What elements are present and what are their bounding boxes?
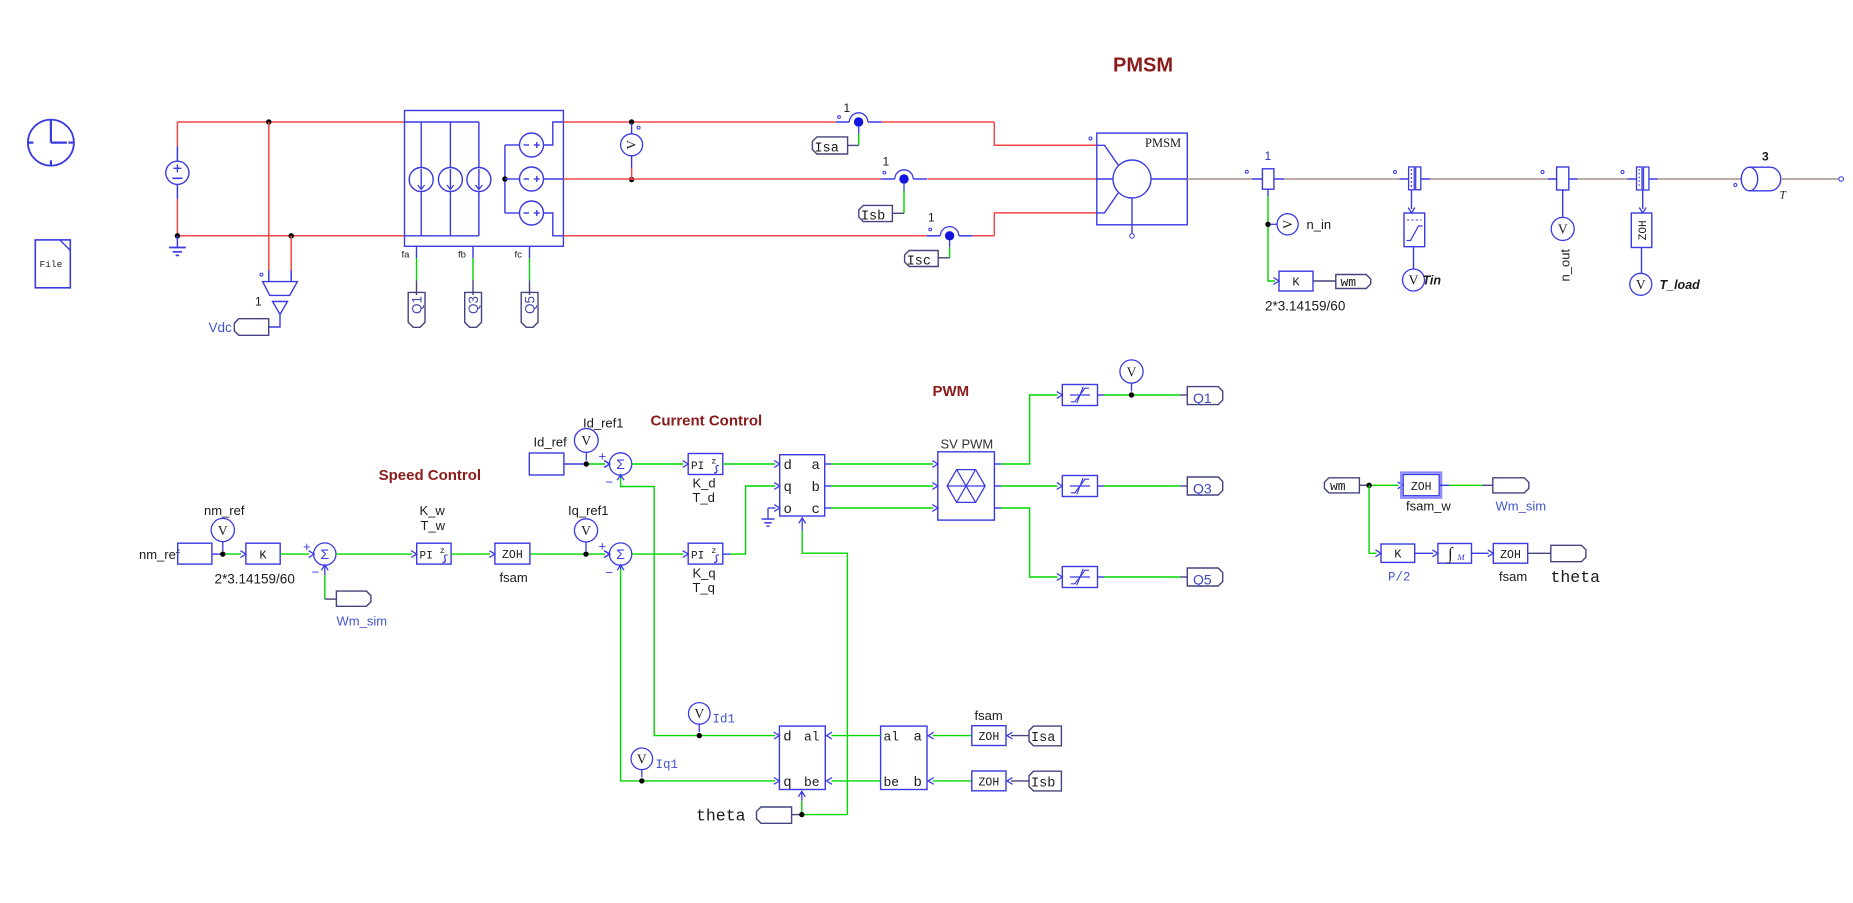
wire red phase c — [563, 235, 926, 237]
speed sensor W2 — [1541, 171, 1544, 174]
svg-text:Isb: Isb — [1031, 776, 1055, 791]
label tag Isb fb — [1029, 771, 1061, 791]
svg-text:Σ: Σ — [616, 456, 625, 472]
wire red phase c to motor — [973, 235, 995, 237]
probe Tin — [1403, 269, 1425, 291]
label tag wm out — [1336, 275, 1371, 289]
wire PI q to block dq-abc q input — [723, 553, 730, 555]
svg-text:n_out: n_out — [1558, 249, 1573, 282]
svg-text:V: V — [581, 523, 591, 538]
wire W2 to n_out probe — [1562, 190, 1564, 217]
svg-text:Q1: Q1 — [409, 296, 424, 314]
probe nm_ref — [211, 518, 234, 541]
wire K to integrator — [1415, 552, 1434, 554]
svg-text:ZOH: ZOH — [1500, 549, 1521, 562]
svg-text:K: K — [1394, 548, 1402, 562]
clock icon — [28, 120, 74, 166]
inverter controlled voltage source 1 — [505, 144, 520, 146]
junction Iq_ref1 — [583, 551, 588, 556]
svg-text:theta: theta — [1551, 568, 1601, 587]
wire theta junction to riser — [802, 814, 848, 816]
wire red phase b to motor — [927, 178, 1096, 180]
svg-text:be: be — [884, 775, 900, 790]
integrator block — [1438, 544, 1472, 564]
wire ZOH to sum q — [530, 553, 605, 555]
svg-text:Current Control: Current Control — [651, 413, 763, 430]
svg-text:q: q — [784, 480, 792, 496]
inverter phase b out — [543, 178, 563, 180]
wire al between transforms — [832, 735, 881, 737]
svg-text:+: + — [599, 539, 607, 554]
inverter source common rail — [504, 145, 506, 213]
junction bottom bus left — [175, 233, 180, 238]
svg-text:−: − — [312, 565, 320, 580]
inverter controlled voltage source 2 — [505, 178, 520, 180]
shaft to torque sensor T2 — [1578, 178, 1628, 180]
svg-text:Q5: Q5 — [1193, 571, 1212, 587]
svg-text:M: M — [1457, 552, 1466, 562]
svg-text:Vdc: Vdc — [209, 320, 233, 335]
svg-text:ZOH: ZOH — [1411, 481, 1432, 494]
file element icon — [35, 240, 70, 288]
wire sum d to PI d — [632, 463, 684, 465]
svg-text:Q3: Q3 — [466, 296, 481, 314]
svg-text:fsam: fsam — [1499, 569, 1527, 584]
svg-text:+: + — [599, 449, 607, 464]
svg-text:SV PWM: SV PWM — [941, 436, 994, 451]
svg-text:Iq_ref1: Iq_ref1 — [568, 503, 608, 518]
wire Isc sensor to tag — [949, 241, 951, 248]
svg-text:fc: fc — [515, 250, 523, 261]
shaft PMSM to speed sensor W1 — [1187, 178, 1252, 180]
PMSM machine block — [1097, 133, 1188, 225]
probe Id_ref1 — [574, 429, 598, 453]
wire comparator to Q5 tag — [1098, 576, 1105, 578]
voltage sensor Vdc — [263, 282, 298, 296]
svg-text:V: V — [637, 751, 647, 766]
svg-text:3: 3 — [1762, 149, 1769, 163]
svg-text:Isa: Isa — [815, 141, 839, 156]
svg-text:d: d — [783, 730, 791, 746]
wire Isa sensor to tag — [858, 127, 860, 134]
wire speed sensor to K — [1267, 189, 1269, 196]
gate terminal fb — [472, 246, 474, 258]
svg-text:Wm_sim: Wm_sim — [337, 613, 388, 628]
wire be between transforms — [832, 780, 881, 782]
svg-text:T_d: T_d — [693, 490, 715, 505]
motor neutral stub — [1131, 198, 1133, 233]
gate label tag Q3 — [465, 292, 482, 327]
svg-text:z: z — [711, 457, 716, 467]
svg-text:V: V — [1281, 220, 1295, 229]
wire Isb sensor to tag — [903, 184, 905, 191]
svg-text:Q1: Q1 — [1193, 390, 1212, 406]
wire red to Vdc sensor left — [268, 122, 270, 271]
probe n_in — [1277, 214, 1298, 235]
svg-text:wm: wm — [1341, 275, 1357, 290]
current sensor Isb — [881, 178, 895, 180]
inverter phase a out — [543, 122, 563, 145]
svg-text:Σ: Σ — [320, 546, 329, 562]
source block Id_ref — [529, 453, 564, 475]
junction top bus — [266, 119, 271, 124]
wire T2 to ZOH — [1642, 190, 1644, 209]
label tag Wm_sim out — [1493, 478, 1529, 493]
svg-text:V: V — [694, 706, 704, 721]
wire Isb tag to ZOH — [1011, 780, 1029, 782]
label tag Q3 out — [1187, 477, 1222, 495]
wire ZOH to T_load probe — [1641, 248, 1643, 274]
svg-text:2*3.14159/60: 2*3.14159/60 — [1265, 298, 1345, 313]
ZOH block Isa — [972, 726, 1006, 746]
wire wm to ZOH fsam_w — [1359, 484, 1369, 486]
svg-text:K_d: K_d — [693, 475, 716, 490]
wire comparator to Q1 tag — [1098, 394, 1105, 396]
svg-text:al: al — [884, 730, 900, 745]
svg-text:ZOH: ZOH — [979, 731, 1000, 744]
svg-text:nm_ref: nm_ref — [139, 547, 180, 562]
svg-text:K: K — [259, 549, 267, 563]
svg-text:fsam: fsam — [975, 708, 1003, 723]
svg-text:PI: PI — [691, 551, 704, 563]
svg-text:Id_ref1: Id_ref1 — [583, 415, 623, 430]
svg-text:1: 1 — [844, 101, 851, 115]
voltmeter across dc link — [629, 119, 634, 124]
wire q-axis feedback — [620, 565, 622, 569]
svg-text:V: V — [1558, 222, 1568, 237]
svg-text:PI: PI — [420, 551, 433, 563]
wire sum1 to PI speed — [336, 553, 412, 555]
probe Id1 — [689, 703, 711, 725]
junction Id_ref1 — [584, 461, 589, 466]
svg-text:theta: theta — [696, 807, 746, 826]
wire nm_ref to K — [212, 553, 223, 555]
svg-text:Id_ref: Id_ref — [534, 434, 568, 449]
PI block d axis — [688, 454, 723, 475]
ground at o input — [768, 507, 776, 509]
ZOH block T_load — [1631, 213, 1652, 248]
svg-text:PWM: PWM — [933, 383, 970, 400]
shaft to speed sensor W2 — [1430, 178, 1548, 180]
inverter current source leg 3 — [478, 122, 480, 236]
shaft to load — [1658, 178, 1742, 180]
svg-text:T: T — [1780, 190, 1788, 202]
svg-text:fsam: fsam — [500, 570, 528, 585]
ZOH block speed — [495, 543, 530, 564]
ground — [176, 236, 178, 247]
inverter current source leg 2 — [449, 122, 451, 236]
junction wm — [1366, 483, 1371, 488]
svg-text:c: c — [812, 502, 820, 518]
label tag Vdc — [234, 319, 268, 336]
svg-text:Isc: Isc — [907, 254, 931, 269]
svg-text:fb: fb — [458, 250, 466, 261]
wire slope limiter to Tin probe — [1413, 247, 1415, 269]
wire a ZOH to transform — [933, 735, 972, 737]
ZOH block fsam_w (selected) — [1401, 473, 1441, 498]
svg-text:V: V — [218, 523, 228, 538]
probe gate Q1 — [1120, 360, 1143, 383]
wire a to SVPWM — [825, 463, 831, 465]
junction Iq1 — [639, 778, 644, 783]
wire SVPWM out b — [994, 485, 1001, 487]
svg-text:d: d — [784, 458, 792, 474]
svg-text:PI: PI — [691, 461, 704, 473]
wire red phase a to motor — [882, 121, 995, 123]
svg-text:Tin: Tin — [1423, 274, 1442, 288]
wire red to Vdc sensor right — [290, 236, 292, 271]
label tag Q5 out — [1187, 568, 1222, 586]
probe Iq1 — [631, 748, 653, 770]
wire PI d to block dq-abc — [723, 463, 775, 465]
svg-text:−: − — [606, 565, 614, 580]
svg-text:Isa: Isa — [1031, 731, 1055, 746]
junction theta — [799, 812, 804, 817]
label tag Isb — [859, 205, 893, 221]
svg-text:ZOH: ZOH — [1638, 220, 1650, 240]
summer speed — [314, 543, 336, 565]
wire SVPWM out a — [994, 463, 1001, 465]
svg-text:V: V — [1127, 364, 1137, 379]
svg-text:K_q: K_q — [693, 565, 716, 580]
svg-text:Wm_sim: Wm_sim — [1496, 499, 1547, 514]
svg-text:T_w: T_w — [421, 518, 446, 533]
svg-text:a: a — [914, 730, 922, 746]
probe Iq_ref1 — [574, 519, 597, 542]
svg-text:V: V — [1409, 273, 1419, 288]
label tag Isa fb — [1029, 726, 1061, 746]
svg-text:V: V — [1636, 277, 1646, 292]
svg-text:V: V — [581, 433, 591, 448]
svg-text:fsam_w: fsam_w — [1406, 499, 1451, 514]
svg-text:nm_ref: nm_ref — [204, 503, 245, 518]
label tag Isa — [812, 137, 847, 154]
wire d-axis feedback — [620, 475, 622, 478]
wire Id_ref to sum d — [564, 463, 586, 465]
wire theta to dq-abc block — [801, 518, 803, 531]
current sensor Isc — [927, 235, 941, 237]
gate wire fb — [472, 258, 474, 281]
svg-text:Q5: Q5 — [522, 296, 537, 314]
svg-text:z: z — [440, 546, 445, 556]
gate label tag Q5 — [521, 292, 538, 327]
svg-text:P/2: P/2 — [1388, 571, 1411, 585]
svg-text:ZOH: ZOH — [502, 549, 523, 562]
wire wm to K P/2 — [1369, 485, 1376, 553]
three-phase inverter block — [405, 111, 564, 247]
svg-text:be: be — [804, 775, 820, 790]
wire T1 to slope limiter — [1411, 190, 1413, 209]
shaft end — [1781, 178, 1839, 180]
wire red phase a — [563, 121, 835, 123]
svg-text:o: o — [784, 502, 792, 518]
source block nm_ref — [178, 543, 212, 564]
comparator Q3 — [1062, 476, 1097, 497]
svg-text:a: a — [812, 458, 820, 474]
svg-text:ZOH: ZOH — [979, 776, 1000, 789]
junction Id1 — [697, 733, 702, 738]
svg-text:1: 1 — [928, 211, 935, 225]
junction n_in — [1265, 222, 1270, 227]
junction bottom bus right — [289, 233, 294, 238]
svg-text:K_w: K_w — [420, 503, 446, 518]
comparator Q1 — [1062, 385, 1097, 406]
summer d axis — [609, 453, 631, 475]
inverter phase c out — [543, 213, 563, 236]
wire theta tag to transform — [801, 792, 803, 802]
wire red V1 top — [176, 122, 178, 147]
svg-text:Speed Control: Speed Control — [379, 467, 482, 484]
svg-text:1: 1 — [883, 155, 890, 169]
svg-text:PMSM: PMSM — [1145, 136, 1181, 150]
probe n_out — [1551, 217, 1574, 240]
wire K to wm tag — [1313, 280, 1336, 282]
dc voltage source V1 — [176, 147, 178, 162]
svg-text:b: b — [914, 775, 922, 791]
speed sensor W1 — [1245, 170, 1248, 173]
svg-text:PMSM: PMSM — [1113, 55, 1173, 77]
svg-text:Isb: Isb — [861, 209, 885, 224]
label tag wm in — [1324, 478, 1359, 493]
gate wire fa — [416, 258, 418, 281]
label tag Isc — [905, 251, 939, 267]
transform block dq-abc — [780, 455, 825, 516]
summer q axis — [609, 543, 631, 565]
wire red bottom bus — [177, 235, 404, 237]
wire c to SVPWM — [825, 507, 831, 509]
svg-text:z: z — [711, 546, 716, 556]
wire PI to ZOH speed — [451, 553, 490, 555]
label tag theta in — [757, 807, 792, 823]
gate terminal fa — [416, 246, 418, 258]
transform block abc-albe — [881, 726, 927, 789]
gate terminal fc — [529, 246, 531, 258]
wire b to SVPWM — [825, 485, 831, 487]
wire sum q to PI q — [632, 553, 684, 555]
ZOH block Isb — [972, 771, 1006, 791]
slope limiter block — [1404, 213, 1425, 247]
svg-text:b: b — [812, 480, 820, 496]
torque sensor T1 — [1394, 171, 1397, 174]
wire red phase b — [563, 178, 881, 180]
wire Isa tag to ZOH — [1011, 735, 1029, 737]
PI block q axis — [688, 543, 723, 564]
inverter controlled voltage source 3 — [505, 212, 520, 214]
svg-text:q: q — [783, 775, 791, 791]
wire red top bus — [177, 121, 404, 123]
wire Vdc sensor to tag — [269, 314, 280, 327]
svg-text:Σ: Σ — [616, 546, 625, 562]
svg-text:fa: fa — [402, 250, 411, 261]
svg-text:+: + — [303, 539, 311, 554]
svg-text:V: V — [623, 139, 638, 149]
ZOH block fsam theta — [1493, 544, 1527, 564]
transform block albe-dq — [779, 726, 825, 789]
inverter top rail — [405, 121, 479, 123]
svg-text:1: 1 — [1265, 149, 1272, 163]
probe T_load — [1630, 273, 1652, 295]
current sensor Isa — [836, 121, 850, 123]
svg-text:T_load: T_load — [1660, 278, 1701, 292]
svg-text:Id1: Id1 — [713, 713, 736, 727]
torque sensor T2 — [1621, 171, 1624, 174]
svg-text:1: 1 — [255, 295, 262, 309]
junction Q1 probe — [1129, 392, 1134, 397]
comparator Q5 — [1062, 567, 1097, 588]
wire integrator to ZOH fsam — [1472, 552, 1489, 554]
wire red V1 bottom — [176, 199, 178, 236]
gate wire fc — [529, 258, 531, 281]
gate label tag Q1 — [408, 292, 425, 327]
wire ZOH to theta tag — [1528, 552, 1551, 554]
svg-text:Q3: Q3 — [1193, 480, 1212, 496]
wire comparator to Q3 tag — [1098, 485, 1105, 487]
svg-text:−: − — [606, 475, 614, 490]
svg-text:Iq1: Iq1 — [656, 758, 679, 772]
inverter current source leg 1 — [420, 122, 422, 236]
wire SVPWM out c — [994, 507, 1001, 509]
svg-text:2*3.14159/60: 2*3.14159/60 — [215, 571, 295, 586]
PI block speed — [417, 543, 451, 564]
svg-text:K: K — [1292, 276, 1300, 290]
svg-text:wm: wm — [1330, 479, 1346, 494]
gain block K rpm — [1279, 271, 1313, 291]
wire sum to Wm_sim tag — [324, 566, 326, 575]
gain block K speed — [246, 543, 280, 564]
svg-text:T_q: T_q — [693, 580, 715, 595]
wire ZOH to Wm_sim tag — [1439, 484, 1449, 486]
label tag theta out — [1551, 545, 1586, 561]
svg-text:∫: ∫ — [1447, 544, 1454, 564]
svg-text:n_in: n_in — [1307, 217, 1332, 232]
svg-text:al: al — [804, 730, 820, 745]
gain block K P/2 — [1381, 544, 1415, 562]
wire b ZOH to transform — [933, 780, 972, 782]
svg-text:File: File — [40, 259, 63, 270]
shaft to torque sensor T1 — [1284, 178, 1400, 180]
wire K to sum1 — [280, 553, 309, 555]
label tag Wm_sim fb — [336, 591, 371, 606]
junction nm_ref probe — [220, 551, 225, 556]
inverter bottom rail — [405, 235, 479, 237]
label tag Q1 out — [1187, 387, 1222, 405]
